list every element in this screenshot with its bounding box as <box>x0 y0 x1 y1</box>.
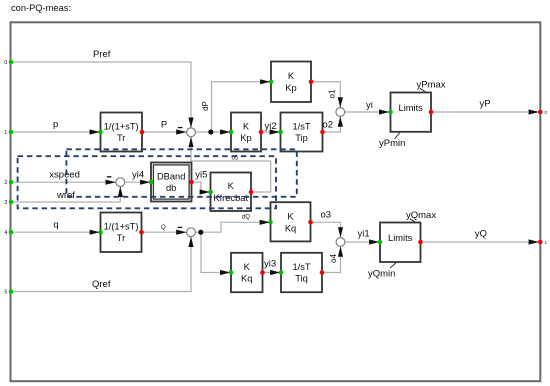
svg-text:1: 1 <box>4 130 7 136</box>
svg-text:K: K <box>288 71 295 81</box>
svg-text:xspeed: xspeed <box>49 170 80 181</box>
svg-text:yi3: yi3 <box>264 258 276 269</box>
svg-text:1/sT: 1/sT <box>292 262 310 272</box>
svg-text:Kq: Kq <box>241 274 252 284</box>
svg-text:o4: o4 <box>329 254 338 263</box>
svg-text:q: q <box>53 220 58 231</box>
svg-text:Tiq: Tiq <box>295 274 308 284</box>
svg-text:DBand: DBand <box>157 171 185 181</box>
svg-text:Tr: Tr <box>117 133 125 143</box>
svg-text:4: 4 <box>4 230 7 236</box>
svg-text:db: db <box>166 183 176 193</box>
svg-text:yP: yP <box>480 99 491 110</box>
svg-text:K: K <box>243 121 250 131</box>
svg-text:0: 0 <box>4 60 7 66</box>
svg-text:con-PQ-meas:: con-PQ-meas: <box>11 3 71 13</box>
svg-text:o2: o2 <box>323 120 334 131</box>
svg-text:dP: dP <box>201 101 210 111</box>
svg-text:yi: yi <box>366 100 373 111</box>
svg-text:K: K <box>228 181 235 191</box>
svg-text:Limits: Limits <box>388 233 413 243</box>
svg-text:1/sT: 1/sT <box>292 121 310 131</box>
svg-text:yQmin: yQmin <box>368 269 395 280</box>
svg-text:yQmax: yQmax <box>406 210 436 221</box>
svg-text:Kq: Kq <box>285 223 296 233</box>
svg-text:5: 5 <box>4 289 7 295</box>
svg-text:o3: o3 <box>321 210 332 221</box>
svg-text:dQ: dQ <box>242 215 250 221</box>
svg-text:Limits: Limits <box>399 103 424 113</box>
svg-text:yQ: yQ <box>475 229 487 240</box>
svg-text:yi1: yi1 <box>358 229 370 240</box>
svg-text:1/(1+sT): 1/(1+sT) <box>104 222 139 232</box>
svg-text:Tip: Tip <box>295 133 308 143</box>
svg-text:1/(1+sT): 1/(1+sT) <box>104 121 139 131</box>
svg-text:Kfrecbat: Kfrecbat <box>213 193 248 203</box>
svg-text:2: 2 <box>4 180 7 186</box>
svg-text:Q: Q <box>161 225 166 231</box>
svg-text:Kp: Kp <box>240 133 251 143</box>
svg-text:yi4: yi4 <box>132 170 144 181</box>
svg-text:Tr: Tr <box>117 233 125 243</box>
svg-text:Kp: Kp <box>285 83 296 93</box>
svg-text:o1: o1 <box>328 89 337 98</box>
svg-text:yi5: yi5 <box>195 170 207 181</box>
svg-text:yi2: yi2 <box>265 121 277 132</box>
svg-text:yPmin: yPmin <box>379 138 405 149</box>
svg-text:P: P <box>161 120 167 131</box>
svg-text:yPmax: yPmax <box>417 80 446 91</box>
svg-text:Qref: Qref <box>92 279 111 290</box>
svg-text:p: p <box>53 119 58 130</box>
svg-text:K: K <box>244 262 251 272</box>
svg-text:3: 3 <box>4 200 7 206</box>
svg-text:K: K <box>287 212 294 222</box>
svg-text:Pref: Pref <box>93 49 111 60</box>
